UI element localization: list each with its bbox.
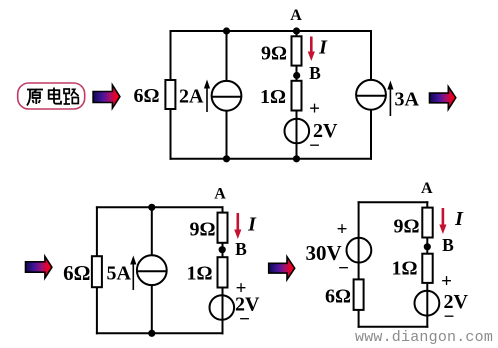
svg-text:A: A	[214, 186, 226, 203]
wire 2A branch upper	[226, 31, 228, 81]
wire 9Ω to node B	[222, 243, 224, 257]
svg-text:I: I	[318, 37, 328, 59]
voltage source US 2V circle (top circuit)	[285, 119, 310, 144]
junction dot node A	[293, 27, 300, 34]
gradient arrow 4 (right of 3A)	[430, 87, 456, 110]
junction dot node B (bottom-right)	[424, 243, 431, 250]
wire left upper above resistor 6Ω	[170, 30, 172, 80]
svg-text:+: +	[309, 99, 320, 120]
junction dot bottom wire / 5A	[148, 330, 155, 337]
hand-drawn glyph 电	[49, 88, 61, 104]
current source IS 5A circle	[137, 255, 167, 285]
wire top	[358, 201, 429, 203]
resistor R 9Ω (bottom-right)	[422, 208, 432, 238]
current arrow I (bottom-left, red)	[234, 213, 241, 239]
svg-text:I: I	[454, 208, 464, 230]
svg-text:2A: 2A	[179, 86, 204, 108]
annotation arrow up (2A)	[204, 80, 210, 113]
resistor R 9Ω (top circuit)	[292, 36, 302, 65]
voltage source US 2V circle (bottom-left)	[210, 295, 235, 320]
3A source chord	[356, 95, 386, 97]
svg-text:6Ω: 6Ω	[133, 85, 159, 107]
voltage source US 2V circle (bottom-right)	[415, 291, 440, 316]
svg-text:6Ω: 6Ω	[325, 286, 351, 308]
wire top (170.5,31)-(371,31)	[170, 30, 373, 32]
wire 9Ω to node B	[296, 66, 298, 81]
svg-text:30V: 30V	[306, 241, 342, 265]
current arrow I (top circuit, red)	[308, 37, 315, 62]
svg-text:B: B	[442, 235, 454, 255]
hand-drawn glyph 路	[64, 89, 79, 104]
wire left through 30V down to 6Ω	[358, 201, 360, 279]
svg-text:5A: 5A	[107, 263, 132, 285]
wire left lower	[96, 287, 98, 334]
svg-text:I: I	[247, 214, 257, 236]
wire left lower	[358, 310, 360, 328]
svg-text:1Ω: 1Ω	[186, 262, 212, 284]
wire right branch upper	[370, 30, 372, 80]
resistor R 6Ω (bottom-right)	[354, 279, 364, 310]
resistor R 6Ω (bottom-left)	[92, 256, 102, 287]
wire bottom	[96, 332, 224, 334]
resistor R 6Ω (top circuit)	[165, 80, 175, 109]
svg-text:9Ω: 9Ω	[261, 43, 287, 65]
wire bottom	[358, 326, 429, 328]
resistor R 9Ω (bottom-left)	[218, 213, 228, 243]
svg-text:6Ω: 6Ω	[63, 261, 90, 285]
wire 1Ω through 2V to bottom	[222, 288, 224, 335]
resistor R 1Ω (top circuit)	[292, 81, 302, 111]
current source IS 3A circle	[356, 80, 386, 110]
wire top	[96, 206, 224, 208]
current source IS 2A circle	[212, 81, 242, 111]
voltage source US 30V circle	[347, 238, 372, 263]
svg-text:A: A	[290, 7, 302, 24]
svg-text:+: +	[337, 219, 348, 240]
gradient arrow 2 (left of bottom-left circuit)	[26, 256, 52, 278]
wire 2A branch lower	[226, 111, 228, 159]
wire 9Ω to node B	[426, 238, 428, 254]
junction dot node B (top circuit)	[293, 72, 300, 79]
2A source chord	[212, 96, 242, 98]
svg-text:B: B	[235, 239, 247, 259]
5A source chord	[137, 270, 167, 272]
wire bottom (170.5,158.8)-(371,158.8)	[170, 158, 373, 160]
svg-text:1Ω: 1Ω	[391, 257, 417, 279]
junction dot top wire / 5A	[148, 204, 155, 211]
junction dot top wire / 2A	[223, 27, 230, 34]
annotation arrow up (3A)	[387, 81, 393, 117]
svg-text:−: −	[239, 309, 250, 330]
svg-text:3A: 3A	[395, 89, 420, 111]
wire left upper	[96, 206, 98, 256]
resistor R 1Ω (bottom-right)	[422, 254, 432, 283]
svg-text:www.diangon.com: www.diangon.com	[355, 329, 493, 346]
svg-text:+: +	[441, 271, 452, 292]
junction dot bottom wire / 2V branch	[293, 155, 300, 162]
wire 1Ω through 2V source to bottom	[296, 111, 298, 159]
resistor R 1Ω (bottom-left)	[218, 257, 228, 287]
junction dot node B (bottom-left)	[219, 246, 226, 253]
svg-text:9Ω: 9Ω	[189, 219, 215, 241]
hand-drawn glyph 原	[27, 90, 43, 106]
wire left lower below resistor	[170, 109, 172, 160]
svg-text:B: B	[309, 63, 321, 83]
box 原电路 (rounded, crimson border)	[18, 83, 85, 109]
svg-text:−: −	[338, 258, 349, 279]
current arrow I (bottom-right, red)	[439, 208, 446, 234]
gradient arrow 1 (after 原电路)	[93, 85, 120, 108]
junction dot bottom wire / 2A	[223, 155, 230, 162]
wire 5A branch lower	[151, 285, 153, 333]
svg-text:1Ω: 1Ω	[260, 86, 286, 108]
gradient arrow 3 (between bottom circuits)	[269, 257, 295, 280]
wire 1Ω through 2V to bottom	[426, 283, 428, 328]
wire right branch: corner to 9Ω	[426, 201, 428, 208]
svg-text:A: A	[421, 180, 433, 197]
svg-text:−: −	[444, 306, 455, 327]
wire middle branch: node A to 9Ω	[296, 31, 298, 37]
annotation arrow up (5A)	[130, 256, 136, 291]
svg-text:9Ω: 9Ω	[393, 216, 419, 238]
wire right branch: A corner to 9Ω	[222, 206, 224, 213]
wire right branch lower	[370, 110, 372, 160]
svg-text:−: −	[309, 135, 320, 156]
wire 5A branch upper	[151, 207, 153, 255]
